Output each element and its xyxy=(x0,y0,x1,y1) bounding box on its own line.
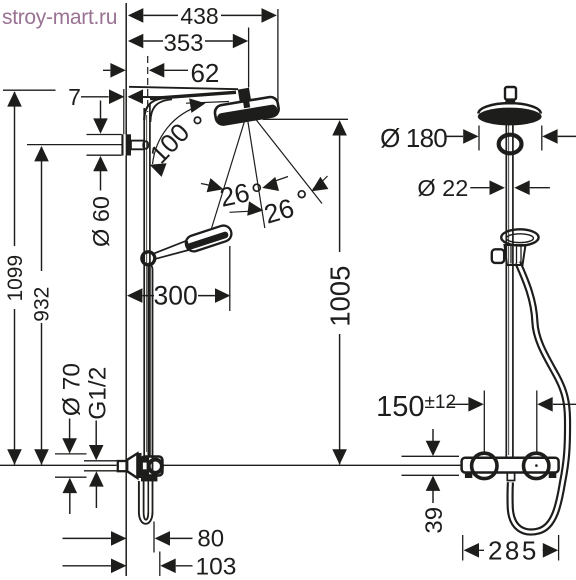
svg-text:Ø 180: Ø 180 xyxy=(380,123,447,153)
svg-text:G1/2: G1/2 xyxy=(85,367,112,420)
svg-text:1005: 1005 xyxy=(325,266,356,327)
svg-text:Ø 22: Ø 22 xyxy=(417,175,468,201)
svg-text:353: 353 xyxy=(163,30,203,57)
svg-text:7: 7 xyxy=(68,84,81,110)
svg-text:103: 103 xyxy=(195,553,236,580)
svg-text:285: 285 xyxy=(488,536,539,566)
svg-text:438: 438 xyxy=(180,3,218,29)
svg-text:Ø 60: Ø 60 xyxy=(88,196,114,247)
svg-text:39: 39 xyxy=(421,507,448,534)
svg-text:1099: 1099 xyxy=(4,255,27,302)
svg-text:80: 80 xyxy=(197,526,224,553)
svg-text:±12: ±12 xyxy=(425,392,457,413)
svg-text:stroy-mart.ru: stroy-mart.ru xyxy=(2,6,117,29)
svg-text:62: 62 xyxy=(190,58,219,88)
svg-text:150: 150 xyxy=(376,391,424,423)
svg-text:932: 932 xyxy=(31,287,54,322)
svg-text:26: 26 xyxy=(217,177,252,212)
svg-text:300: 300 xyxy=(153,281,197,311)
svg-text:Ø 70: Ø 70 xyxy=(59,363,86,416)
